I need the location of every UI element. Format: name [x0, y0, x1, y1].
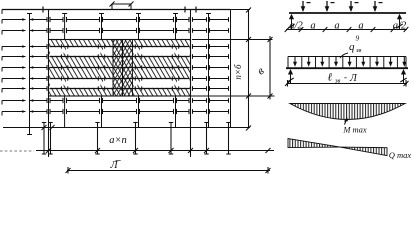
dimension line L: [66, 167, 271, 174]
svg-text:-: -: [344, 72, 347, 82]
panel left boundary line: [48, 10, 50, 158]
plan bottom edge line: [3, 125, 250, 130]
beam scheme 1: beam line: [289, 12, 406, 14]
dimension line a x n: [0, 148, 274, 153]
beam scheme 2: load arrows: [293, 57, 406, 67]
white slab bar boxes in hatched strip: [50, 47, 190, 88]
beam scheme 1: left support: [288, 14, 294, 30]
extension line top of panel width: [192, 39, 273, 41]
bending moment diagram M: [290, 104, 405, 120]
dimension line n x b (vertical): [246, 8, 251, 131]
shear force diagram Q: [288, 139, 387, 156]
rib line x=138: [136, 14, 141, 129]
rib line x=101: [99, 14, 104, 129]
panel slab bars row y=111.5: [50, 109, 189, 114]
beam scheme 2: span dimension line: [285, 80, 409, 87]
panel right boundary line: [190, 10, 192, 158]
svg-text:ℓ: ℓ: [328, 72, 333, 84]
beam scheme 1: point load arrows P: [301, 1, 383, 12]
rib line x=64.6: [62, 14, 67, 129]
beam scheme 2: distributed load band: [288, 57, 406, 68]
panel slab bars row y=30.5: [50, 28, 189, 33]
svg-text:п×б: п×б: [233, 64, 243, 80]
label q_zv with leader: [340, 34, 362, 59]
left region slab bars (hooked ends, arrowheads): [2, 17, 47, 115]
labels a/2 a a a a/2: [289, 21, 407, 32]
rib line x=175: [173, 14, 178, 129]
beam scheme 2: beam line: [286, 67, 408, 69]
dimension line B (panel width, vertical): [268, 36, 273, 100]
svg-text:Л: Л: [349, 73, 358, 84]
rib line x=29: [27, 14, 32, 135]
svg-text:a/2: a/2: [289, 21, 303, 32]
beam scheme 2: left support: [287, 69, 293, 84]
plan right edge line: [230, 10, 232, 129]
extension line bottom of panel width: [49, 95, 275, 97]
svg-text:a: a: [358, 21, 363, 32]
svg-text:q: q: [349, 41, 355, 53]
rib axis line in strip center: [122, 40, 124, 97]
hatched load strip of slab panel: [49, 40, 191, 97]
plan top edge line: [2, 10, 250, 15]
svg-text:Q max: Q max: [389, 150, 412, 160]
M max leader and label: [342, 117, 367, 134]
panel slab bars row y=19.5: [50, 17, 189, 22]
top mini dimension (rib strip width): [110, 2, 134, 10]
panel slab bars row y=100.5: [50, 98, 189, 103]
svg-text:a/2: a/2: [393, 21, 407, 32]
beam scheme 1: dimension line a/2,a,a,a,a/2: [285, 27, 409, 32]
transverse bar symbols below plan: [42, 123, 231, 155]
svg-text:9: 9: [356, 34, 360, 43]
label l_zv = L: [328, 72, 359, 85]
rib line x=208: [206, 14, 211, 129]
svg-text:M max: M max: [342, 125, 367, 135]
svg-text:a: a: [334, 21, 339, 32]
svg-text:а×п: а×п: [109, 135, 127, 146]
slab bar lines across hatched strip: [50, 44, 190, 90]
right region slab bars: [193, 17, 229, 114]
cross-hatched rib strip (middle): [113, 40, 133, 97]
tick marks on top edge at panel boundaries: [43, 7, 196, 13]
svg-text:a: a: [310, 21, 315, 32]
svg-text:зв: зв: [355, 47, 362, 54]
beam scheme 1: right support: [396, 14, 402, 30]
beam scheme 2: right support: [400, 69, 406, 84]
